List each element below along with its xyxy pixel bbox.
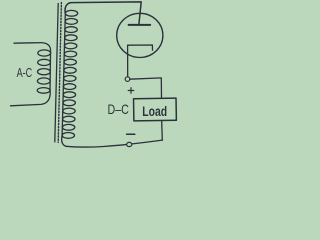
svg-text:A-C: A-C <box>17 65 33 80</box>
svg-text:Load: Load <box>142 103 167 119</box>
transformer core solid bar <box>55 4 58 142</box>
wire primary bottom lead <box>11 89 51 106</box>
tube V1 plate <box>129 24 151 26</box>
tube V1 envelope <box>117 13 163 57</box>
wire bottom return <box>66 140 162 147</box>
load box R1 <box>134 98 177 121</box>
minus sign <box>127 133 135 135</box>
svg-text:D–C: D–C <box>108 101 129 117</box>
wire primary top lead <box>14 43 51 53</box>
tube V1 filament <box>128 45 153 77</box>
wire load bottom <box>161 121 164 140</box>
wire terminal to load top <box>130 78 162 98</box>
plus sign <box>128 88 134 94</box>
wire secondary top to plate <box>65 2 141 24</box>
wire secondary bottom hook <box>62 135 66 146</box>
terminal negative <box>127 142 132 146</box>
terminal positive <box>125 77 130 82</box>
transformer T1 primary winding <box>37 50 50 93</box>
transformer core dotted bar <box>58 3 61 143</box>
transformer T1 secondary winding <box>62 10 78 138</box>
